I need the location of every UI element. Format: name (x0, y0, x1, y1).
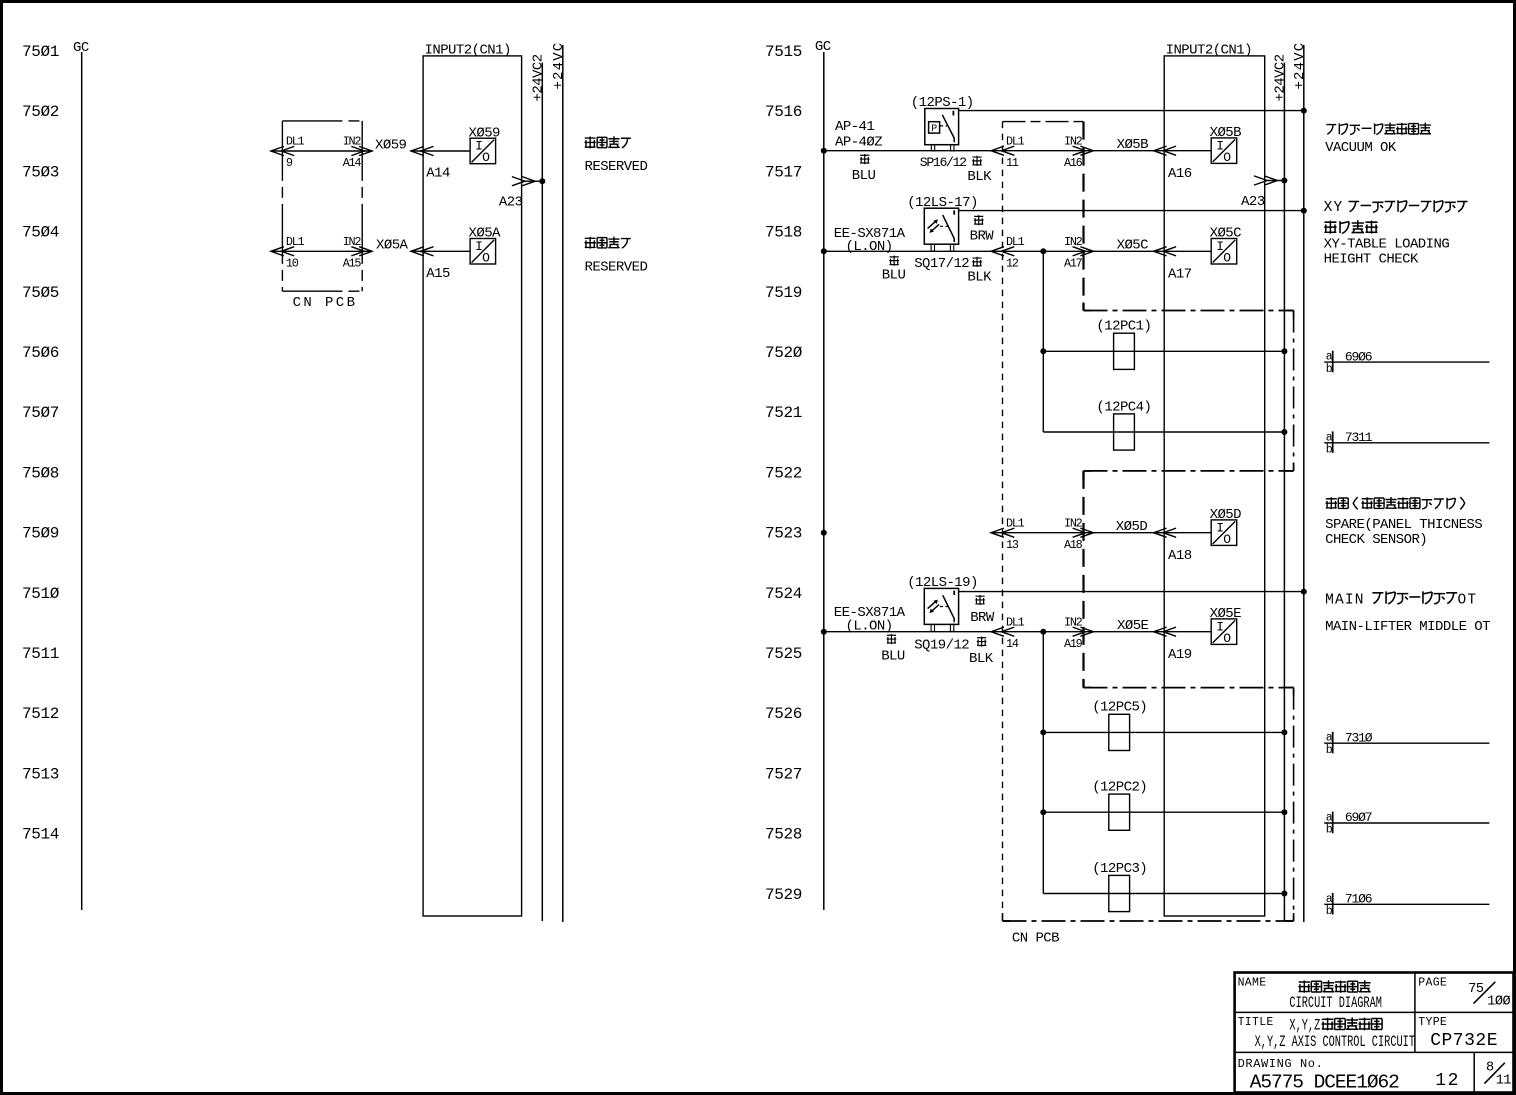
svg-text:7517: 7517 (765, 163, 802, 181)
svg-text:MAIN-LIFTER MIDDLE OT: MAIN-LIFTER MIDDLE OT (1325, 619, 1490, 635)
junction dot coil 12PC2 left (1040, 809, 1046, 815)
svg-text:7515: 7515 (765, 43, 802, 61)
svg-text:7311: 7311 (1345, 430, 1373, 445)
wire DL1-IN2 link row 7502-left (271, 146, 372, 155)
title block title kanji (1289, 1016, 1382, 1034)
svg-text:(12PC5): (12PC5) (1092, 700, 1147, 716)
wire GC to CN PCB row 7516 (824, 150, 991, 152)
svg-text:IN2: IN2 (343, 235, 362, 249)
connector box CN PCB (right) bottom edge (1003, 920, 1294, 922)
svg-text:CIRCUIT DIAGRAM: CIRCUIT DIAGRAM (1289, 994, 1382, 1012)
connector box CN PCB (left) right edge (361, 121, 363, 291)
svg-text:A16: A16 (1168, 166, 1192, 182)
photo sensor 12LS-17 (924, 208, 958, 251)
svg-text:75Ø5: 75Ø5 (22, 284, 59, 302)
svg-text:BLU: BLU (882, 268, 906, 284)
page link 7106 tick (1332, 893, 1334, 915)
cable boundary corner stub 6 (1286, 688, 1294, 696)
wire X05E to INPUT2 with arrow (1093, 627, 1211, 636)
io-module X05C symbol (1211, 239, 1237, 266)
annotation main lifter kanji (1325, 591, 1477, 608)
svg-text:CN PCB: CN PCB (293, 295, 358, 311)
svg-text:BLK: BLK (969, 651, 994, 667)
wire 12LS-19 to +24VC bus (959, 591, 1304, 593)
wire GC to CN PCB row 7525 (824, 631, 991, 633)
title block row3 separator (1473, 1052, 1475, 1092)
svg-text:GC: GC (73, 40, 89, 56)
svg-text:DL1: DL1 (1006, 235, 1025, 249)
wire 12LS-17 to +24VC bus (959, 210, 1304, 212)
wire color kanji blue row 7518 (889, 256, 899, 266)
svg-text:IN2: IN2 (1064, 615, 1083, 629)
svg-text:A5775 DCEE1Ø62: A5775 DCEE1Ø62 (1250, 1072, 1399, 1094)
page link 7310 line (1324, 742, 1489, 744)
svg-text:7528: 7528 (765, 826, 802, 844)
wire color kanji brown row 7518 (974, 215, 984, 225)
cable boundary dash-dot right seg2 (1293, 688, 1295, 921)
bus +24VC (left) (562, 45, 564, 922)
svg-text:731Ø: 731Ø (1345, 730, 1373, 745)
annotation XY-table kanji line1 (1324, 200, 1468, 216)
pressure switch 12PS-1 (925, 109, 959, 151)
pin A23 arrow (left) (512, 177, 542, 186)
svg-text:7523: 7523 (765, 525, 802, 543)
svg-text:AP-4ØZ: AP-4ØZ (835, 134, 882, 150)
title block page slash (1474, 982, 1496, 1004)
wire X05C to INPUT2 with arrow (1093, 247, 1211, 256)
cable boundary dash-dot lower (1084, 687, 1294, 689)
junction dot coil 12PC3 right on +24VC2 (1281, 891, 1287, 897)
cable boundary corner stub 3 (1286, 463, 1294, 471)
connector box CN PCB (right) bold right edge seg2 (1082, 471, 1084, 688)
io-module X059 symbol (470, 138, 496, 165)
junction dot coil 12PC5 right on +24VC2 (1281, 729, 1287, 735)
wire branch vertical to coils 12PC5/2/3 (1042, 632, 1044, 894)
svg-text:A16: A16 (1064, 156, 1083, 170)
svg-text:7514: 7514 (22, 826, 59, 844)
svg-text:71Ø6: 71Ø6 (1345, 892, 1372, 907)
wire DL1-IN2 link row 7504-left (271, 247, 372, 256)
wire DL1-IN2 link row 7518-right (991, 247, 1093, 256)
svg-text:752Ø: 752Ø (765, 344, 803, 362)
svg-text:11: 11 (1006, 156, 1019, 170)
svg-text:75Ø7: 75Ø7 (22, 404, 59, 422)
cable boundary corner stub 7 (1286, 913, 1294, 921)
cable boundary corner stub 4 (1084, 471, 1092, 479)
svg-text:A23: A23 (1241, 194, 1265, 210)
svg-text:7511: 7511 (22, 645, 59, 663)
svg-text:8: 8 (1486, 1061, 1494, 1076)
wire GC to CN PCB row 7518 (824, 250, 991, 252)
page link 6906 tick (1332, 351, 1334, 373)
annotation vacuum kanji (1326, 123, 1431, 135)
io-module X05B symbol (1211, 138, 1237, 165)
title block outer box (1235, 973, 1514, 1093)
wire GC bus (right) (823, 52, 825, 910)
svg-text:7518: 7518 (765, 224, 802, 242)
svg-text:X,Y,Z AXIS CONTROL CIRCUIT: X,Y,Z AXIS CONTROL CIRCUIT (1255, 1033, 1415, 1051)
connector box CN PCB (left) top edge (282, 120, 362, 122)
title block row separator 1 (1235, 1011, 1514, 1013)
svg-text:SPARE(PANEL THICNESS: SPARE(PANEL THICNESS (1325, 517, 1482, 533)
svg-text:(L.ON): (L.ON) (846, 619, 893, 635)
svg-text:+24VC: +24VC (1292, 42, 1308, 90)
svg-text:1ØØ: 1ØØ (1487, 994, 1510, 1009)
io-module X05D symbol (1211, 520, 1237, 547)
svg-text:7526: 7526 (765, 705, 802, 723)
photo sensor 12LS-19 (924, 588, 958, 631)
connector box CN PCB (right) bold right edge seg1 (1082, 122, 1084, 311)
svg-text:75Ø9: 75Ø9 (22, 525, 59, 543)
svg-text:10: 10 (286, 257, 299, 271)
svg-text:CP732E: CP732E (1430, 1031, 1498, 1051)
io-module X05E symbol (1211, 619, 1237, 646)
pin A23 arrow (right) (1254, 176, 1284, 185)
svg-text:TYPE: TYPE (1418, 1016, 1447, 1029)
junction dot A23 on +24VC2 (left) (539, 178, 545, 184)
svg-text:IN2: IN2 (1064, 134, 1083, 148)
svg-text:DL1: DL1 (286, 235, 305, 249)
connector box CN PCB (right) top edge (1003, 121, 1084, 123)
wire coil 12PC3 row (1043, 893, 1284, 895)
junction dot branch row 7525 (1040, 629, 1046, 635)
svg-text:A17: A17 (1168, 267, 1192, 283)
svg-text:CN PCB: CN PCB (1012, 931, 1059, 947)
wire DL1-IN2 link row 7525-right (991, 627, 1093, 636)
title block name kanji (1298, 980, 1370, 993)
svg-text:75Ø3: 75Ø3 (22, 163, 59, 181)
junction dot 12LS-19 on +24VC (1301, 589, 1307, 595)
wire coil 12PC5 row (1043, 731, 1284, 733)
svg-text:75Ø1: 75Ø1 (22, 43, 59, 61)
svg-text:11: 11 (1496, 1073, 1512, 1088)
svg-text:NAME: NAME (1238, 976, 1267, 989)
svg-text:69Ø7: 69Ø7 (1345, 810, 1372, 825)
svg-text:O: O (1223, 532, 1231, 547)
wire color kanji black row 7518 (972, 257, 982, 267)
svg-text:7521: 7521 (765, 404, 802, 422)
svg-text:RESERVED: RESERVED (585, 259, 648, 275)
svg-text:69Ø6: 69Ø6 (1345, 349, 1372, 364)
svg-text:X,Y,Z: X,Y,Z (1289, 1016, 1320, 1034)
svg-text:75Ø6: 75Ø6 (22, 344, 59, 362)
svg-text:XY: XY (1324, 200, 1344, 216)
title block sheet slash (1484, 1063, 1504, 1084)
svg-text:(12PC1): (12PC1) (1096, 319, 1151, 335)
wire color kanji blue row 7525 (887, 634, 897, 644)
cable boundary dash-dot mid (1084, 470, 1294, 472)
svg-text:A18: A18 (1064, 538, 1083, 552)
svg-text:7527: 7527 (765, 765, 802, 783)
svg-text:A15: A15 (343, 257, 362, 271)
svg-text:BRW: BRW (970, 228, 995, 244)
connector INPUT2(CN1) box (right) (1164, 56, 1265, 916)
connector box CN PCB (left) left edge (281, 121, 283, 291)
junction dot coil 12PC2 right on +24VC2 (1281, 809, 1287, 815)
svg-text:O: O (1223, 150, 1231, 165)
relay coil 12PC1 (1114, 333, 1135, 369)
relay coil 12PC5 (1109, 714, 1130, 750)
connector INPUT2(CN1) box (left) (423, 56, 521, 916)
svg-text:SQ17/12: SQ17/12 (914, 256, 969, 272)
svg-text:VACUUM OK: VACUUM OK (1325, 140, 1397, 156)
wire coil 12PC1 row (1043, 350, 1284, 352)
svg-text:BLU: BLU (852, 168, 876, 184)
svg-text:+24VC2: +24VC2 (1272, 54, 1288, 101)
svg-text:14: 14 (1006, 637, 1019, 651)
svg-text:BLK: BLK (967, 270, 992, 286)
svg-text:BRW: BRW (970, 610, 995, 626)
page link 7311 tick (1332, 431, 1334, 453)
annotation height kanji line2 (1324, 220, 1378, 233)
svg-text:GC: GC (815, 39, 831, 55)
svg-text:O: O (482, 251, 490, 266)
wire X05D to INPUT2 with arrow (1093, 528, 1211, 537)
wire GC bus (left) (81, 52, 83, 910)
wire coil 12PC2 row (1043, 811, 1284, 813)
junction dot A23 on +24VC2 (right) (1281, 178, 1287, 184)
svg-text:A19: A19 (1064, 637, 1083, 651)
svg-text:(L.ON): (L.ON) (846, 239, 893, 255)
bus +24VC2 (left) (541, 63, 543, 922)
svg-text:7525: 7525 (765, 645, 802, 663)
svg-text:75Ø4: 75Ø4 (22, 224, 59, 242)
wire color kanji brown row 7525 (975, 595, 985, 605)
page link 6907 line (1324, 822, 1489, 824)
wire 12PS-1 to +24VC bus (959, 110, 1304, 112)
junction dot coil 12PC1 right on +24VC2 (1281, 348, 1287, 354)
svg-text:SP16/12: SP16/12 (920, 155, 966, 170)
cable boundary dash-dot right seg1 (1293, 311, 1295, 471)
svg-text:7512: 7512 (22, 705, 59, 723)
wire branch vertical to coils 12PC1/12PC4 (1042, 251, 1044, 432)
page link 6906 line (1324, 361, 1489, 363)
junction dot coil 12PC1 left (1040, 348, 1046, 354)
svg-text:751Ø: 751Ø (22, 585, 60, 603)
svg-text:A14: A14 (426, 166, 450, 182)
junction dot coil 12PC4 right on +24VC2 (1281, 429, 1287, 435)
title block row separator 2 (1235, 1051, 1514, 1053)
svg-text:DL1: DL1 (286, 135, 305, 149)
svg-text:BLU: BLU (881, 649, 905, 665)
svg-text:DL1: DL1 (1006, 516, 1025, 530)
svg-text:12: 12 (1435, 1071, 1460, 1091)
svg-text:BLK: BLK (967, 169, 992, 185)
svg-text:A19: A19 (1168, 647, 1192, 663)
junction dot GC row 7523 (821, 530, 827, 536)
junction dot GC row 7518 (821, 248, 827, 254)
svg-text:7529: 7529 (765, 886, 802, 904)
svg-text:+24VC: +24VC (551, 42, 567, 90)
svg-text:AP-41: AP-41 (835, 119, 874, 135)
wire X05B to INPUT2 with arrow (1093, 146, 1211, 155)
wire coil 12PC4 row (1043, 431, 1284, 433)
svg-text:(12PC3): (12PC3) (1092, 861, 1147, 877)
junction dot 12PS-1 on +24VC (1301, 108, 1307, 114)
svg-text:OT: OT (1458, 592, 1478, 608)
bus +24VC2 (right) (1283, 63, 1285, 922)
svg-text:IN2: IN2 (343, 135, 362, 149)
junction dot GC row 7516 (821, 148, 827, 154)
svg-text:7516: 7516 (765, 103, 802, 121)
svg-text:(12PC2): (12PC2) (1092, 780, 1147, 796)
svg-text:MAIN: MAIN (1325, 592, 1365, 608)
svg-text:A18: A18 (1168, 548, 1192, 564)
connector box CN PCB (left) bottom edge (282, 290, 362, 292)
wire DL1-IN2 link row 7516-right (991, 146, 1093, 155)
svg-text:7524: 7524 (765, 585, 802, 603)
svg-text:75Ø8: 75Ø8 (22, 464, 59, 482)
junction dot branch row 7518 (1040, 248, 1046, 254)
page link 6907 tick (1332, 812, 1334, 834)
page link 7310 tick (1332, 732, 1334, 754)
svg-text:DRAWING No.: DRAWING No. (1238, 1057, 1324, 1071)
svg-text:P: P (931, 124, 937, 135)
cable boundary corner stub 8 (1003, 913, 1011, 921)
page link 7106 line (1324, 903, 1489, 905)
svg-text:RESERVED: RESERVED (585, 159, 648, 175)
svg-text:IN2: IN2 (1064, 235, 1083, 249)
svg-text:XØ59: XØ59 (375, 137, 407, 153)
svg-text:+24VC2: +24VC2 (530, 54, 546, 101)
svg-text:DL1: DL1 (1006, 615, 1025, 629)
junction dot coil 12PC5 left (1040, 729, 1046, 735)
svg-text:XY-TABLE LOADING: XY-TABLE LOADING (1324, 237, 1450, 253)
bus +24VC (right) (1303, 45, 1305, 922)
connector box CN PCB (right) left edge (1002, 122, 1004, 921)
annotation spare kanji (1326, 497, 1465, 509)
svg-text:13: 13 (1006, 538, 1019, 552)
svg-text:IN2: IN2 (1064, 516, 1083, 530)
svg-text:CHECK SENSOR): CHECK SENSOR) (1325, 532, 1427, 548)
title block column separator (1414, 973, 1416, 1053)
svg-text:O: O (482, 150, 490, 165)
svg-text:TITLE: TITLE (1238, 1016, 1274, 1029)
svg-text:A23: A23 (499, 194, 523, 210)
wire DL1-IN2 link row 7523-right (991, 528, 1093, 537)
cable boundary corner stub 5 (1084, 680, 1092, 688)
wire color kanji black row 7525 (977, 637, 987, 647)
svg-text:HEIGHT CHECK: HEIGHT CHECK (1324, 252, 1419, 268)
junction dot 12LS-17 on +24VC (1301, 208, 1307, 214)
io-module X05A symbol (470, 239, 496, 266)
relay coil 12PC2 (1109, 794, 1130, 830)
svg-text:PAGE: PAGE (1418, 976, 1447, 989)
annotation yoyaku-zumi row2 (kanji) (584, 237, 630, 249)
svg-text:(12PC4): (12PC4) (1096, 399, 1151, 415)
svg-text:75Ø2: 75Ø2 (22, 103, 59, 121)
svg-text:A15: A15 (426, 266, 450, 282)
relay coil 12PC4 (1114, 414, 1135, 450)
annotation yoyaku-zumi row1 (kanji) (584, 136, 630, 148)
relay coil 12PC3 (1109, 875, 1130, 911)
svg-text:7519: 7519 (765, 284, 802, 302)
svg-text:XØ5A: XØ5A (376, 238, 409, 254)
svg-text:7522: 7522 (765, 464, 802, 482)
svg-text:7513: 7513 (22, 765, 59, 783)
svg-text:12: 12 (1006, 257, 1019, 271)
svg-text:O: O (1223, 251, 1231, 266)
svg-text:A14: A14 (343, 156, 362, 170)
svg-text:O: O (1223, 631, 1231, 646)
wire color kanji black row 7516 (972, 156, 982, 166)
cable boundary dash-dot top (1084, 310, 1294, 312)
cable boundary corner stub 2 (1286, 311, 1294, 319)
page link 7311 line (1324, 442, 1489, 444)
wire color kanji blue row 7516 (860, 154, 870, 164)
svg-text:A17: A17 (1064, 257, 1083, 271)
wire X05A to INPUT2 with arrow (411, 247, 470, 256)
wire X059 to INPUT2 with arrow (411, 146, 470, 155)
svg-text:SQ19/12: SQ19/12 (914, 637, 969, 653)
svg-text:DL1: DL1 (1006, 134, 1025, 148)
cable boundary corner stub 1 (1084, 303, 1092, 311)
junction dot GC row 7525 (821, 629, 827, 635)
